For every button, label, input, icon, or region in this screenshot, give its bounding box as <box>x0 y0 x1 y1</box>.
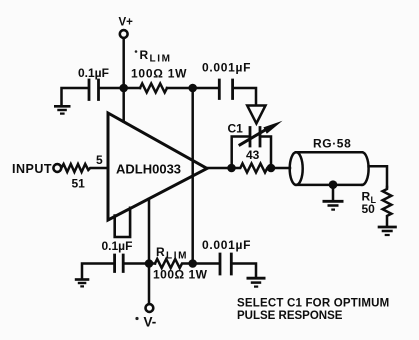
svg-text:C1: C1 <box>228 122 244 136</box>
svg-text:100Ω 1W: 100Ω 1W <box>153 268 208 282</box>
svg-text:0.001µF: 0.001µF <box>202 61 251 75</box>
svg-text:100Ω 1W: 100Ω 1W <box>131 67 187 81</box>
svg-text:INPUT: INPUT <box>12 162 52 176</box>
svg-text:PULSE RESPONSE: PULSE RESPONSE <box>237 310 343 322</box>
svg-text:51: 51 <box>72 177 86 191</box>
svg-text:SELECT C1 FOR OPTIMUM: SELECT C1 FOR OPTIMUM <box>237 298 389 310</box>
svg-text:V+: V+ <box>119 17 134 29</box>
svg-text:LIM: LIM <box>166 251 188 262</box>
svg-text:0.001µF: 0.001µF <box>202 238 251 252</box>
svg-text:0.1µF: 0.1µF <box>102 239 133 253</box>
svg-text:R: R <box>156 245 165 259</box>
svg-text:50: 50 <box>362 202 376 216</box>
svg-text:ADLH0033: ADLH0033 <box>116 162 181 177</box>
svg-text:LIM: LIM <box>150 54 172 65</box>
svg-text:43: 43 <box>246 148 260 162</box>
svg-text:RG·58: RG·58 <box>313 137 351 151</box>
svg-text:5: 5 <box>96 153 103 167</box>
svg-text:V-: V- <box>144 315 157 330</box>
svg-text:R: R <box>140 48 149 62</box>
svg-text:0.1µF: 0.1µF <box>78 66 109 80</box>
